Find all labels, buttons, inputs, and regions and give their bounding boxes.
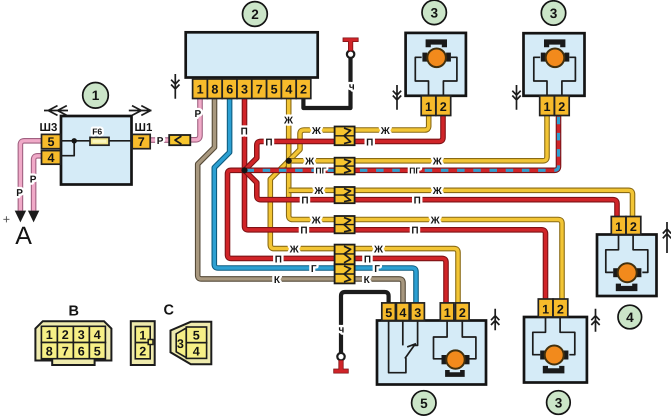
internal junction dot [72,138,77,143]
svg-text:F6: F6 [92,126,102,136]
unit 5 lamp leads [434,321,476,359]
ground near lamp 3 front-right [512,85,520,110]
lamp 3 front-left bulb [427,49,446,68]
svg-text:К: К [364,275,371,286]
svg-text:П: П [265,137,272,148]
svg-text:П: П [366,137,373,148]
lamp 3 rear clamp contacts [540,351,545,360]
unit2 pin 8 [207,79,222,99]
connector B cell 2 [57,326,73,342]
svg-text:5: 5 [48,135,55,149]
svg-text:3: 3 [414,306,421,320]
svg-text:2: 2 [300,83,307,97]
svg-text:Ж: Ж [304,157,315,168]
connector C cell 4 [186,343,206,359]
junction dot on Ж wire [286,158,292,164]
svg-text:2: 2 [62,328,69,342]
internal wire pin5 to pin7 [61,140,133,142]
svg-text:1: 1 [425,100,432,114]
wire Р from unit2 pin1 to connector [190,99,200,140]
svg-text:Ж: Ж [283,115,294,126]
unit2 pin 1 [193,79,208,99]
ground near lamp 4 [663,222,671,253]
fuse F6 [90,137,109,145]
unit5 pin 5 [382,303,396,321]
lamp 3 rear internal leads [533,317,575,355]
svg-text:3: 3 [555,395,563,410]
wire Ж row to lamp 3 front-left pin1 [289,115,429,161]
wire ч black from unit2 pin2 to power tap [303,58,350,108]
svg-text:5: 5 [271,83,278,97]
svg-text:4: 4 [285,83,292,97]
lamp 3 front-left callout circle [422,0,446,24]
lamp 4 clamp contacts [613,268,618,277]
wire Р from unit1 pin4 to battery arrow [34,156,42,211]
svg-text:Р: Р [16,188,23,199]
connector B cell 6 [73,343,89,359]
svg-text:3: 3 [431,5,439,20]
wire П branch row to lamp 4 pin1 [245,170,618,217]
svg-text:4: 4 [48,151,55,165]
wire П from unit2 pin3 down then row to rear lamp 3 pin1 [245,99,546,300]
unit 5 rear lamp body with switch [377,321,486,385]
svg-text:7: 7 [138,135,145,149]
lamp 3 rear pin 2 [553,299,568,317]
svg-text:Ш1: Ш1 [135,122,153,134]
lamp 3 rear holder bracket [545,366,561,371]
unit1 pin 5 [42,134,61,148]
connector B cell 5 [89,343,105,359]
svg-text:6: 6 [226,83,233,97]
connector pair block F rows Г/К [335,264,355,283]
single connector Р near unit1 [169,135,190,145]
lamp 3 front-right pin 2 [555,96,570,116]
connector B cell 1 [41,326,57,342]
svg-text:4: 4 [626,310,634,325]
svg-text:5: 5 [385,306,392,320]
lamp 4 pin 2 [626,217,641,235]
connector C cell 5 [186,327,206,343]
svg-text:4: 4 [94,328,101,342]
lamp 3 rear pin 1 [538,299,553,317]
svg-text:Ж: Ж [430,215,441,226]
lamp 4 bulb [618,263,637,282]
lamp 3 rear callout circle [547,391,571,415]
lamp 3 front-right clamp contacts [541,53,546,62]
wire Г from unit2 pin6 row to lamp 5 pin3 [214,99,416,304]
lamp 4 internal leads [606,235,648,273]
svg-text:Ж: Ж [311,126,322,137]
svg-text:Ж: Ж [289,245,300,256]
unit5 pin 3 [411,303,425,321]
arrow to sheet left [44,106,68,116]
svg-text:1: 1 [544,100,551,114]
svg-text:2: 2 [139,345,146,359]
svg-text:5: 5 [420,396,428,411]
unit1 pin 7 [132,134,150,148]
svg-text:П: П [364,254,371,265]
lamp 3 front-right callout circle [541,1,565,25]
power tap terminal circle top [347,51,354,58]
svg-text:Ж: Ж [432,186,443,197]
svg-text:П: П [300,226,307,237]
power tap red Т symbol top [343,38,358,51]
svg-text:Ж: Ж [432,157,443,168]
svg-text:Ш3: Ш3 [40,122,58,134]
lamp 3 front-left internal leads [415,57,457,96]
connector C pentagon outline [171,322,212,364]
wire ч black from lamp 5 pin5 to power tap bottom [341,292,389,353]
ground near unit 5 [491,309,499,331]
wire Ж row to lamp 4 pin2 [289,190,633,217]
unit1 pin 4 [42,151,61,165]
lamp 3 front-right bulb [546,49,565,68]
svg-text:1: 1 [542,302,549,316]
svg-text:2: 2 [440,100,447,114]
svg-text:7: 7 [62,344,69,358]
connector pair block D rows Ж/П [335,216,355,233]
svg-text:ч: ч [339,325,345,336]
svg-text:1: 1 [444,306,451,320]
svg-text:Р: Р [157,136,164,147]
unit5 pin 1 [440,303,454,321]
svg-text:3: 3 [241,83,248,97]
svg-text:ч: ч [349,82,355,93]
unit 1 mounting block body [61,116,132,185]
unit 2 callout circle [243,2,268,27]
lamp 3 front-left holder bracket [428,42,444,47]
wire П branch row to lamp 3 front-left pin2 [245,115,444,170]
lamp 3 front-left pin 1 [421,96,436,116]
power tap terminal circle bottom [337,353,344,360]
connector B outline [35,321,111,365]
svg-text:3: 3 [550,6,558,21]
unit 5 callout circle [412,391,436,415]
svg-text:ПГ: ПГ [409,165,420,175]
unit2 pin 2 [296,79,311,99]
lamp 3 front-left clamp contacts [422,53,427,62]
connector pair block A rows Ж/П [335,127,355,146]
svg-text:2: 2 [558,100,565,114]
connector C small outline [131,321,155,365]
arrow head to battery left [15,211,26,223]
lamp 3 front-right pin 1 [540,96,555,116]
wire П branch row to lamp 5 pin1 [228,170,447,303]
svg-text:2: 2 [459,306,466,320]
svg-text:3: 3 [78,328,85,342]
svg-text:С: С [164,303,175,319]
svg-text:К: К [274,275,281,286]
svg-text:Ж: Ж [373,245,384,256]
svg-text:1: 1 [139,328,146,342]
svg-text:5: 5 [94,344,101,358]
lamp 3 front-right internal leads [534,57,576,96]
unit 5 switch blade [405,344,416,359]
wire Ж row to lamp 5 pin2 [270,161,458,304]
ground near lamp 3 front-left [393,85,401,110]
unit 5 switch contact from pin4 [402,321,404,346]
connector B cell 7 [57,343,73,359]
ground near lamp 3 rear [591,309,599,332]
wire Ж row to rear lamp 3 pin2 [289,161,562,300]
svg-text:1: 1 [46,328,53,342]
svg-text:Ж: Ж [313,186,324,197]
lamp 3 front-left pin 2 [436,96,451,116]
svg-text:8: 8 [46,344,53,358]
connector B cell 4 [89,326,105,342]
connector C cell 1 [135,327,150,343]
svg-text:7: 7 [256,83,263,97]
svg-text:5: 5 [193,329,200,343]
svg-text:1: 1 [197,83,204,97]
connector C cell 3 [176,328,186,358]
unit 5 switch contact from pin5 [389,321,406,373]
unit2 pin 4 [281,79,296,99]
wire Р from unit1 pin5 to battery arrow [20,141,41,211]
lamp 3 rear body [524,317,587,383]
svg-text:В: В [69,304,79,320]
power tap red Т symbol bottom [334,360,349,373]
svg-text:П: П [414,196,421,207]
ground near unit 2 [171,74,179,99]
wire Р stub from unit1 pin7 to connector [150,137,169,143]
connector C cell 2 [135,343,150,359]
svg-text:П: П [301,196,308,207]
unit2 pin 7 [252,79,267,99]
unit2 pin 3 [237,79,252,99]
svg-text:2: 2 [630,220,637,234]
svg-text:Ж: Ж [380,126,391,137]
svg-text:1: 1 [92,88,100,103]
lamp 3 front-right holder bracket [547,42,563,47]
connector B cell 3 [73,326,89,342]
svg-text:П: П [241,127,248,138]
unit 5 holder bracket [447,370,462,375]
lamp 4 pin 1 [611,217,626,235]
svg-text:Ж: Ж [311,215,322,226]
lamp 4 callout circle [618,305,642,329]
unit 1 callout circle [83,83,109,109]
connector C latch [148,340,153,345]
lamp 3 front-left body [406,33,466,96]
lamp 3 rear bulb [545,346,564,365]
svg-text:4: 4 [399,306,406,320]
svg-text:Г: Г [374,264,380,275]
svg-text:8: 8 [211,83,218,97]
svg-text:6: 6 [78,344,85,358]
wire ПГ striped row to lamp 3 front-right pin2 [245,115,559,170]
svg-text:2: 2 [557,302,564,316]
svg-text:1: 1 [615,220,622,234]
svg-text:+: + [3,213,10,227]
unit 5 bulb [446,350,464,368]
internal branch to pin4 [61,141,75,156]
lamp 4 body [597,235,657,297]
unit 2 hazard switch body [186,32,318,77]
svg-text:2: 2 [251,7,259,22]
wire Ж row to lamp 3 front-right pin1 [289,115,547,161]
junction dot on П wire [241,167,247,173]
unit5 pin 2 [456,303,470,321]
svg-text:Р: Р [195,109,202,120]
svg-text:А: А [15,222,32,250]
svg-text:Г: Г [311,264,317,275]
connector pair block B rows Ж/ПГ [335,158,355,175]
svg-text:4: 4 [193,344,200,358]
svg-text:3: 3 [177,337,184,351]
unit2 pin 5 [267,79,282,99]
connector pair block C rows Ж/П [335,187,355,203]
svg-text:ПГ: ПГ [315,165,326,175]
wire Ж from unit2 pin4 down to junction [286,99,292,161]
svg-text:Р: Р [30,175,37,186]
svg-text:П: П [275,254,282,265]
svg-text:П: П [411,226,418,237]
wire К from unit2 pin8 row to lamp 5 pin4 [198,99,403,304]
arrow to sheet right [129,106,152,116]
unit 5 switch contact from pin3 [414,321,417,346]
unit2 pin 6 [222,79,237,99]
unit 5 clamp contacts [442,355,447,364]
connector B cell 8 [41,343,57,359]
unit5 pin 4 [396,303,409,321]
connector pair block E rows Ж/П [335,245,355,265]
lamp 4 holder bracket [618,284,634,289]
arrow head to battery right [28,211,39,223]
lamp 3 front-right body [524,33,585,96]
